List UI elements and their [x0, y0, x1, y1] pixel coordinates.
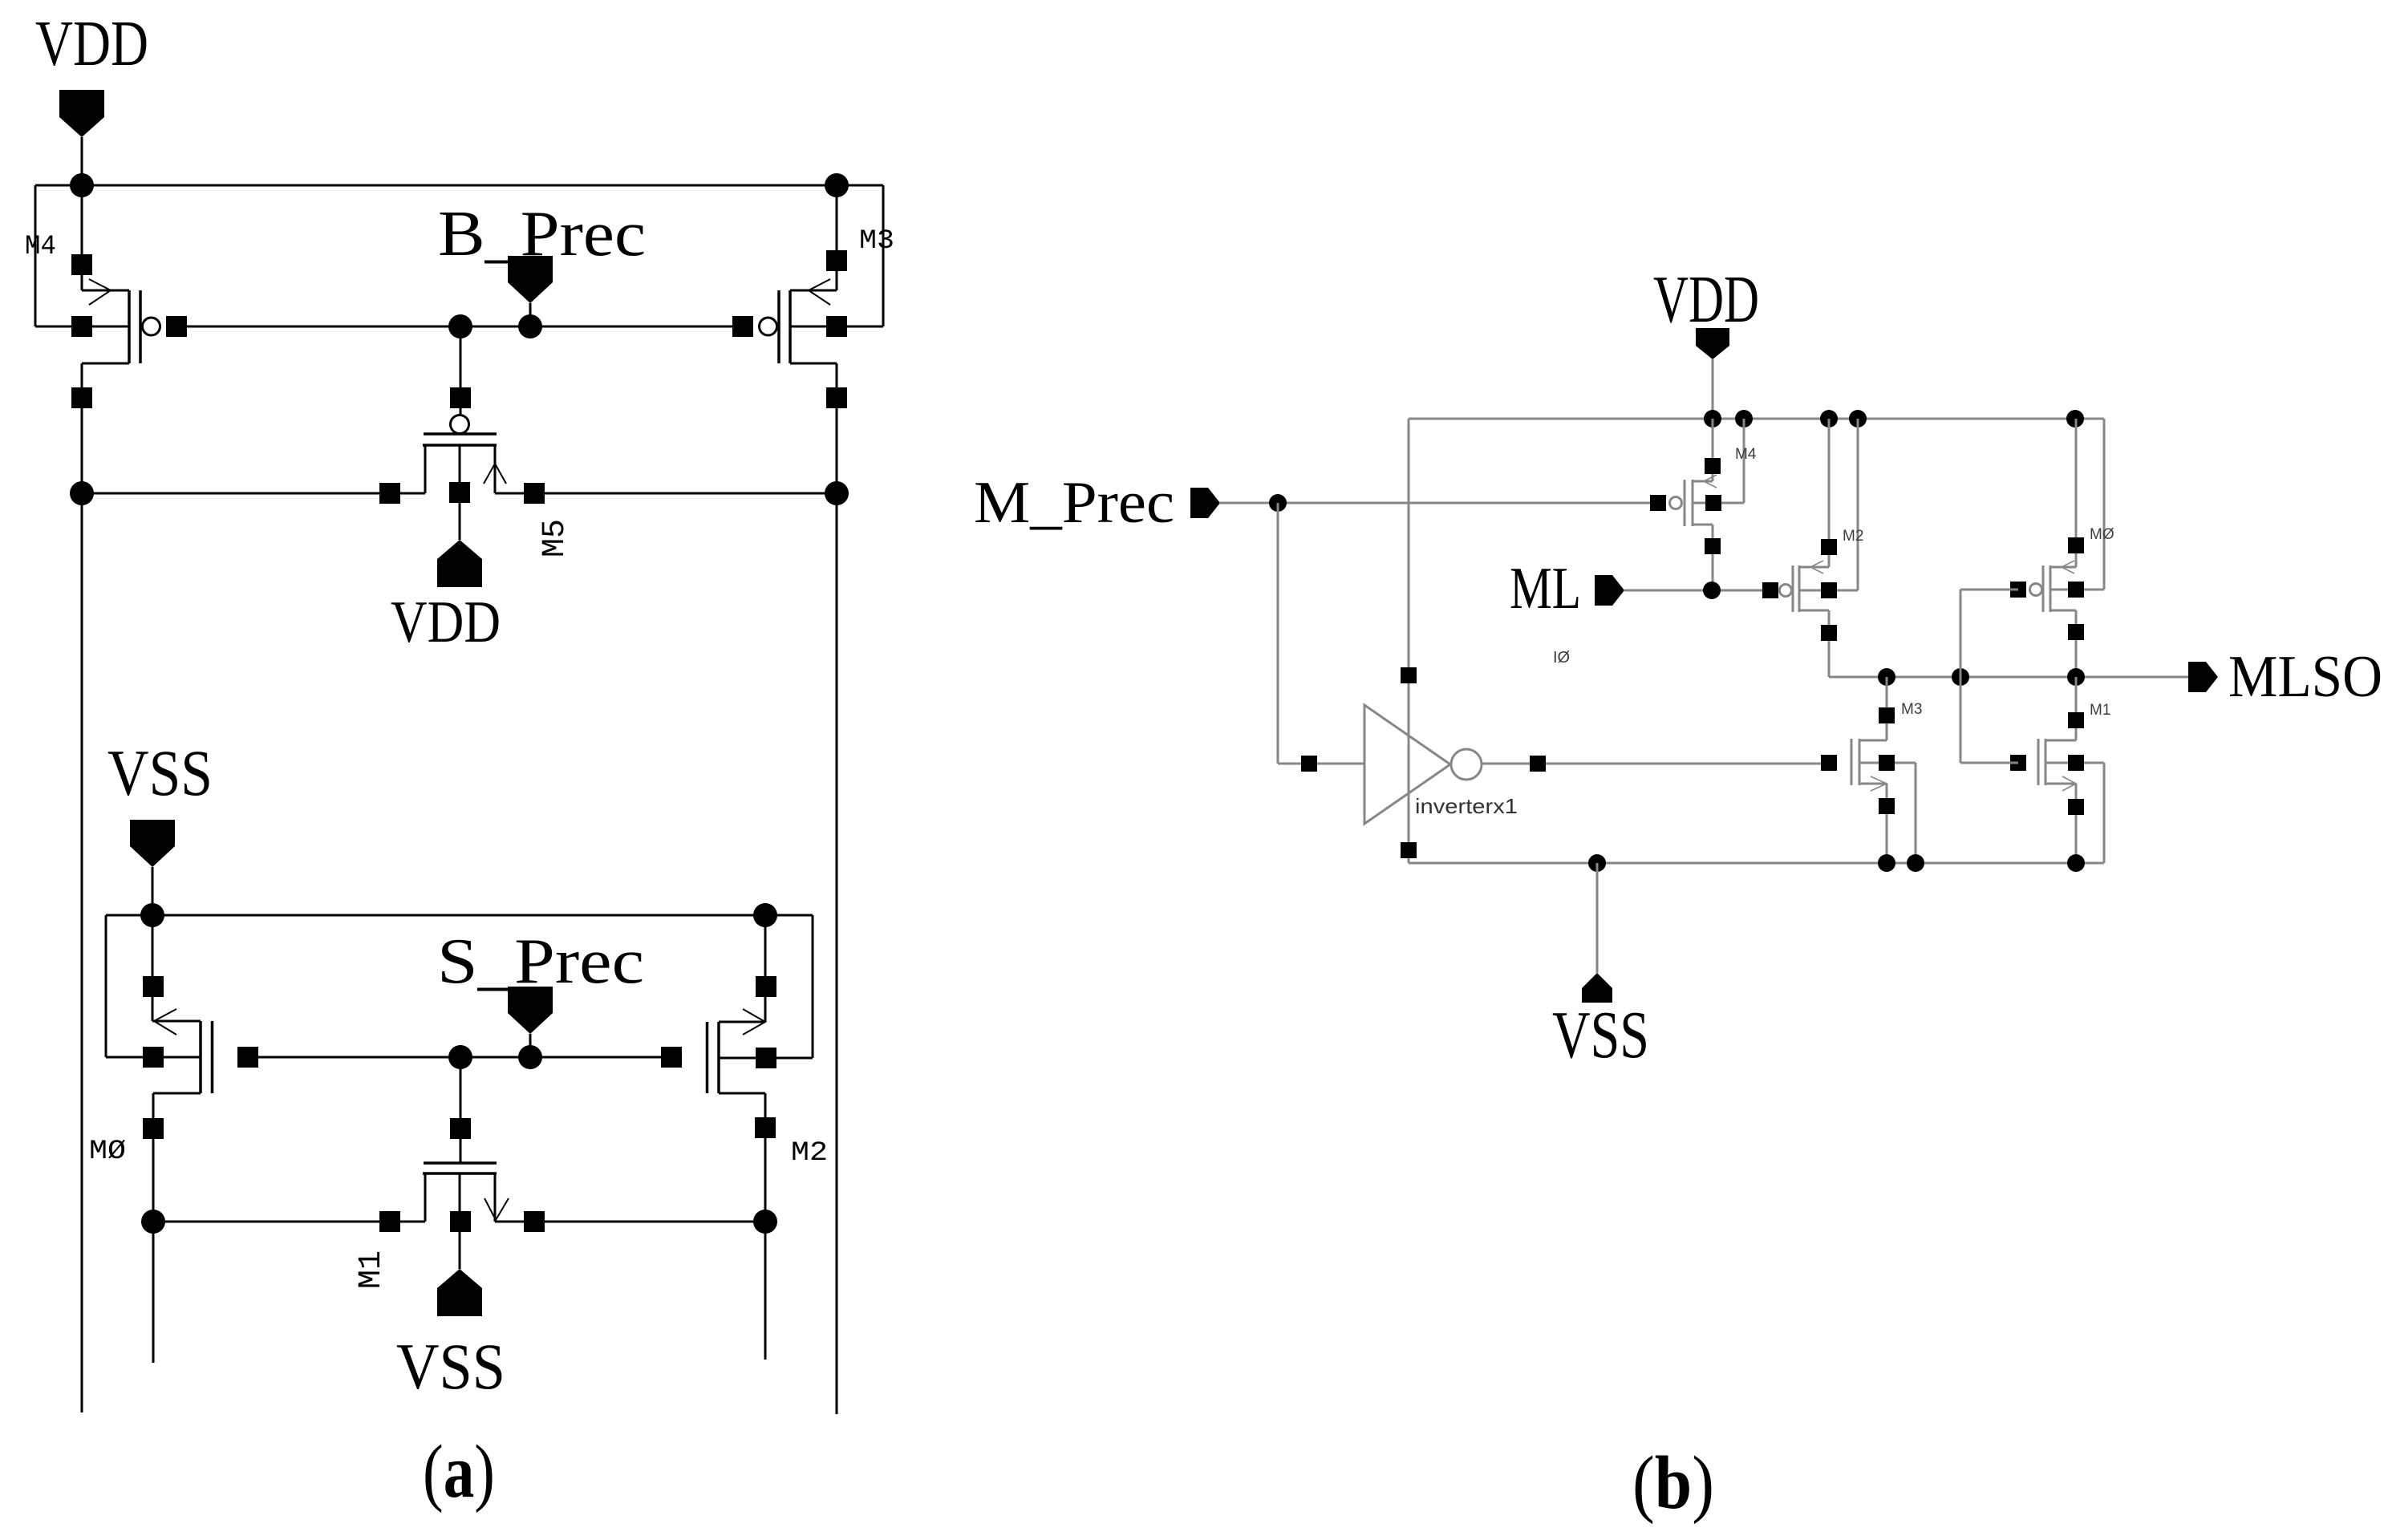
svg-text:IØ: IØ [1553, 649, 1570, 667]
junction rail at M2 source [1820, 410, 1838, 428]
transistor M3 (PMOS, top right) [732, 185, 847, 493]
wire left VSS loop (M0 bulk) [105, 915, 107, 1057]
svg-text:M3: M3 [1901, 701, 1922, 718]
junction node at M3 [1878, 668, 1895, 686]
input pin B_Prec [508, 256, 553, 303]
junction bus at VSS pin [1588, 854, 1606, 872]
wire left bulk drop (M4 bulk to VDD rail) [34, 185, 37, 326]
op-amp U1 inverter triangle [1364, 705, 1450, 824]
wire M1 gate feedback [1960, 762, 2018, 764]
transistor M4 (PMOS, top left) [71, 185, 187, 493]
wire M0 gate feedback [1960, 589, 2018, 591]
wire right rail corner drop (M3 bulk to VDD rail) [882, 185, 885, 326]
square M5 bulk pin on bus crossing [449, 482, 470, 503]
transistor M2 (panel b PMOS) [1762, 419, 1858, 677]
transistor M4 (panel b PMOS) [1670, 419, 1745, 590]
wire M2 drain tail [764, 1222, 767, 1360]
wire bottom VSS bus (panel b) [1409, 862, 2104, 865]
junction bottom bus right [753, 1210, 777, 1234]
junction node at gate feedback [1952, 668, 1969, 686]
wire M0 drain tail [152, 1222, 155, 1363]
junction gate row left (M5 gate tap) [448, 314, 472, 338]
wire M_Prec row [1219, 502, 1658, 505]
wire top VDD rail [35, 184, 883, 187]
svg-text:M3: M3 [859, 226, 894, 257]
junction bottom bus left [141, 1210, 165, 1234]
wire VDD pin to rail (panel b) [1712, 359, 1714, 419]
junction rail at VDD pin [1704, 410, 1721, 428]
square inverter output pin [1530, 756, 1546, 772]
svg-text:M1: M1 [354, 1250, 390, 1289]
svg-text:ML: ML [1510, 556, 1581, 622]
square M5 left pin on bus [379, 483, 400, 504]
power pin VDD (panel b) [1696, 328, 1729, 359]
square M2 drain pin [755, 1117, 776, 1138]
wire VSS pin drop (panel b) [1596, 863, 1599, 973]
transistor M5 (PMOS, middle, equalizer) [423, 415, 506, 541]
input pin S_Prec [508, 987, 553, 1034]
svg-text:MØ: MØ [2090, 526, 2114, 543]
input pin M_Prec [1190, 488, 1220, 518]
junction on VDD rail above M4 [70, 173, 94, 197]
wire S_Prec pin stub [529, 1034, 532, 1057]
power pin VDD (top) [59, 90, 104, 137]
square M4 drain pin [71, 387, 92, 408]
square M1 gate pin [450, 1118, 471, 1139]
junction on VDD rail above M3 [825, 173, 849, 197]
svg-text:VSS: VSS [1552, 998, 1649, 1072]
wire middle bus left segment [82, 492, 425, 495]
input pin ML [1595, 575, 1624, 606]
svg-text:S_Prec: S_Prec [437, 926, 644, 997]
junction middle bus right [825, 481, 849, 505]
junction gate row under S_Prec pin [518, 1045, 542, 1069]
wire top rail (panel b) [1409, 418, 2104, 420]
svg-text:(b): (b) [1632, 1441, 1714, 1525]
square M5 right pin on bus [524, 483, 545, 504]
junction bus at M3 bulk [1907, 854, 1924, 872]
wire gate row M0-M2 [258, 1056, 671, 1059]
power pin VSS (upper) [130, 820, 175, 867]
svg-text:M1: M1 [2090, 702, 2110, 719]
wire rail right drop to M0 bulk (panel b) [2103, 419, 2106, 590]
junction VSS rail above M2 [753, 903, 777, 927]
square M3 drain pin [826, 387, 847, 408]
junction middle bus left [70, 481, 94, 505]
svg-text:VSS: VSS [396, 1330, 505, 1403]
wire gate feedback vertical [1960, 590, 1962, 763]
svg-text:M5: M5 [537, 519, 574, 557]
svg-text:M4: M4 [1735, 446, 1757, 463]
wire right long vertical to bottom [836, 493, 838, 1414]
junction rail at M0 source [2066, 410, 2084, 428]
wire M1 gate vertical [460, 1057, 462, 1163]
junction bus at M3 drain [1878, 854, 1895, 872]
svg-text:VDD: VDD [35, 9, 148, 79]
junction VSS rail above M0 [140, 903, 164, 927]
svg-text:VDD: VDD [1653, 262, 1759, 337]
transistor M1 (NMOS, bottom middle) [423, 1163, 509, 1269]
svg-text:VSS: VSS [107, 736, 213, 809]
svg-text:M2: M2 [791, 1138, 828, 1169]
svg-text:inverterx1: inverterx1 [1415, 794, 1518, 818]
power pin VSS (bottom) [437, 1269, 482, 1316]
transistor M3 (panel b NMOS) [1821, 677, 1916, 863]
square M1 middle pin on bottom bus [450, 1211, 471, 1232]
junction gate row left (M1 gate tap) [448, 1045, 472, 1069]
wire VSS pin to VSS rail [152, 867, 154, 915]
wire middle bus right segment [495, 492, 837, 495]
svg-text:M4: M4 [25, 232, 56, 262]
svg-text:M2: M2 [1843, 528, 1863, 545]
wire output node row [1829, 676, 2188, 679]
wire B_Prec pin stub [529, 303, 532, 326]
wire VSS rail [106, 914, 813, 917]
wire VDD pin to top rail [81, 137, 83, 185]
inverter output bubble [1451, 749, 1482, 780]
square M1 left pin on bottom bus [379, 1211, 400, 1232]
junction ML at M4 drain [1703, 582, 1721, 599]
wire M_Prec junction down to inverter input [1277, 503, 1279, 764]
wire M5 gate vertical [460, 326, 462, 415]
transistor M2 (NMOS, bottom right) [661, 915, 776, 1222]
svg-text:VDD: VDD [391, 590, 501, 655]
power pin VSS (panel b) [1582, 973, 1612, 1003]
wire right VSS loop (M2 bulk) [812, 915, 814, 1058]
junction gate row under B_Prec pin [518, 314, 542, 338]
wire bottom bus right segment [495, 1221, 765, 1223]
svg-text:MØ: MØ [89, 1137, 126, 1167]
wire ML row [1624, 590, 1770, 592]
square M0 drain pin [143, 1118, 164, 1139]
output pin MLSO [2188, 662, 2218, 692]
square inverter input pin [1301, 756, 1317, 772]
junction node at M0/M1 [2067, 668, 2085, 686]
wire inverter output row to M3 gate [1482, 763, 1829, 765]
wire bottom bus left segment [153, 1221, 425, 1223]
wire left long vertical to bottom [81, 493, 83, 1412]
junction rail at M2 bulk [1849, 410, 1867, 428]
power pin VDD (middle) [437, 540, 482, 587]
svg-text:M_Prec: M_Prec [974, 470, 1174, 536]
wire gate row M4-M3 [187, 326, 743, 328]
transistor M1 (panel b NMOS) [2010, 677, 2104, 863]
transistor M0 (panel b PMOS) [2010, 419, 2104, 677]
junction bus at M1 drain [2067, 854, 2085, 872]
junction rail at M4 bulk [1735, 410, 1753, 428]
wire inverter power vertical squares [1401, 667, 1417, 683]
svg-text:MLSO: MLSO [2228, 644, 2382, 710]
transistor M0 (NMOS, bottom left) [143, 915, 258, 1222]
wire rail left drop (panel b) [1408, 419, 1410, 863]
junction M_Prec [1269, 494, 1287, 512]
square M1 right pin on bottom bus [524, 1211, 545, 1232]
svg-text:(a): (a) [423, 1430, 495, 1514]
square M5 gate pin [450, 387, 471, 408]
